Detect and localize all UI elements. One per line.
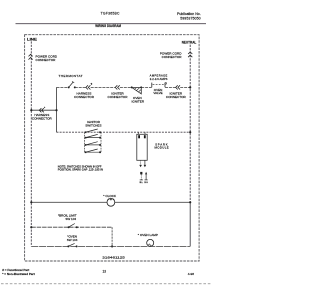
junction dot at line bus — [30, 109, 32, 111]
broil limit row wire — [31, 226, 112, 228]
spark module box — [137, 134, 147, 160]
spark electrode left — [140, 172, 149, 184]
svg-text:THERMOSTAT: THERMOSTAT — [59, 74, 83, 78]
svg-text:CONNECTOR: CONNECTOR — [166, 95, 187, 99]
wire: riser joining thermostat row, harness row and switch rail — [56, 87, 58, 132]
svg-text:TGF365BC: TGF365BC — [101, 12, 120, 16]
ignitor switch 4 — [85, 149, 101, 153]
spark module riser stubs — [137, 132, 139, 134]
oven switch — [67, 243, 77, 247]
svg-text:13: 13 — [103, 270, 107, 274]
clock row wire — [31, 201, 190, 203]
svg-text:WIRING DIAGRAM: WIRING DIAGRAM — [95, 24, 121, 28]
svg-text:* OVEN LAMP: * OVEN LAMP — [138, 233, 158, 237]
oven lamp — [147, 239, 154, 246]
junction dot at riser — [55, 109, 57, 111]
spark electrode right — [145, 172, 148, 180]
igniter connector (main row right) — [176, 85, 180, 89]
thermostat switch — [68, 81, 76, 88]
wire: drop from broil row to bottom rail — [111, 227, 113, 246]
ignitor switch 2 — [85, 134, 101, 138]
LINE bus wire — [30, 41, 32, 246]
junction at neutral bus — [189, 86, 191, 88]
svg-text:VALVE: VALVE — [153, 91, 162, 95]
wire — [91, 86, 115, 88]
spark output lead right — [144, 160, 147, 167]
wire: thermostat row start — [57, 86, 69, 88]
wire — [141, 86, 152, 88]
wire — [165, 86, 176, 88]
broil limit switch — [68, 224, 78, 229]
wire — [120, 86, 132, 88]
svg-text:SW 104: SW 104 — [65, 217, 76, 221]
ignitor switch bank rails — [84, 132, 86, 152]
svg-text:CONNECTOR: CONNECTOR — [36, 58, 57, 62]
oven igniter (glowbar) — [131, 86, 143, 94]
svg-text:CONNECTOR: CONNECTOR — [74, 95, 95, 99]
wire to neutral bus — [180, 86, 190, 88]
svg-text:MODULE: MODULE — [155, 146, 169, 150]
svg-text:SWITCHES: SWITCHES — [85, 124, 101, 128]
svg-text:CONNECTOR: CONNECTOR — [108, 95, 129, 99]
svg-text:LINE: LINE — [27, 37, 38, 41]
svg-text:316461125: 316461125 — [102, 255, 125, 259]
ignitor switch 1 (on rail) — [85, 129, 101, 133]
svg-text:4-98: 4-98 — [188, 272, 194, 276]
svg-text:* CLOCK: * CLOCK — [103, 194, 117, 198]
svg-text:AMPERAGE: AMPERAGE — [150, 73, 168, 77]
oven valve solenoid — [152, 83, 167, 88]
power cord connector right — [188, 52, 192, 57]
clock motor — [107, 198, 115, 206]
footer: tear line — [1, 283, 212, 285]
svg-text:IGNITER: IGNITER — [132, 100, 145, 104]
svg-text:SW 104: SW 104 — [67, 238, 78, 242]
svg-text:NEUTRAL: NEUTRAL — [182, 41, 197, 45]
svg-text:B.U: B.U — [144, 182, 148, 184]
wire — [75, 86, 86, 88]
svg-text:POSITION. SPARK GAP .125-.185: POSITION. SPARK GAP .125-.185 IN — [58, 168, 103, 172]
switch rail wire (dashed) — [57, 131, 191, 133]
bottom rail wire — [31, 245, 190, 247]
svg-text:CONNECTOR: CONNECTOR — [32, 116, 53, 120]
spark output lead left — [139, 160, 142, 167]
svg-text:* = Non-Illustrated Part: * = Non-Illustrated Part — [2, 272, 34, 276]
junction at neutral bus — [189, 131, 191, 133]
svg-text:3.2-3.6 AMPS: 3.2-3.6 AMPS — [150, 77, 168, 81]
igniter connector (main row left) — [115, 85, 120, 89]
harness connector (main row) — [86, 83, 92, 89]
spark module terminals — [138, 135, 140, 138]
NEUTRAL bus wire — [189, 45, 191, 203]
harness row wire — [31, 109, 56, 111]
svg-text:CONNECTOR: CONNECTOR — [162, 55, 183, 59]
svg-text:5995375050: 5995375050 — [180, 16, 200, 20]
ignitor switch 3 — [85, 142, 101, 146]
power cord connector left — [29, 54, 33, 59]
header rule — [16, 23, 207, 25]
diagram border frame — [25, 35, 200, 261]
harness connector (row 2) — [39, 107, 45, 113]
